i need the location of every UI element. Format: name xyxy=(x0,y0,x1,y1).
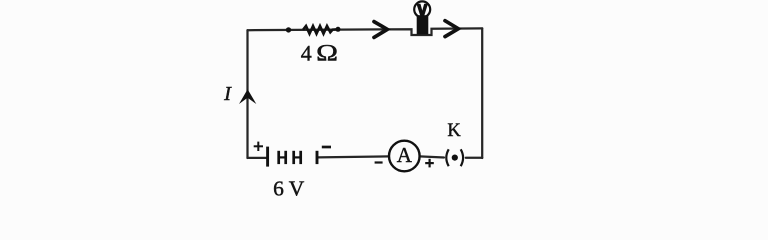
svg-text:I: I xyxy=(223,83,232,105)
svg-text:K: K xyxy=(447,121,461,141)
svg-text:Ω: Ω xyxy=(316,40,338,66)
svg-text:A: A xyxy=(397,143,413,167)
svg-text:6 V: 6 V xyxy=(273,176,305,198)
svg-text:4: 4 xyxy=(301,41,312,66)
